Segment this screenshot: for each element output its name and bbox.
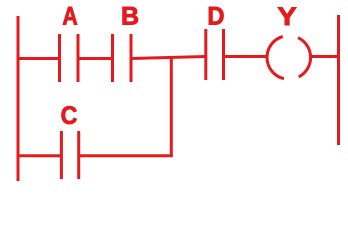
contact B right bar bbox=[130, 34, 133, 82]
contact C right bar bbox=[77, 131, 80, 179]
wire coil to right rail bbox=[310, 55, 340, 58]
left power rail bbox=[17, 16, 20, 181]
wire D to coil Y bbox=[224, 55, 268, 58]
contact C left bar bbox=[60, 131, 63, 179]
contact A right bar bbox=[77, 34, 80, 82]
wire C to riser bbox=[79, 154, 173, 157]
svg-text:D: D bbox=[207, 3, 224, 31]
wire B to D bbox=[131, 57, 206, 59]
wire rail to contact A bbox=[17, 57, 61, 60]
svg-text:B: B bbox=[121, 3, 139, 31]
branch riser wire bbox=[170, 57, 173, 157]
contact D right bar bbox=[222, 29, 225, 80]
contact D left bar bbox=[204, 29, 207, 80]
wire rail to contact C bbox=[17, 154, 63, 157]
contact B left bar bbox=[111, 34, 114, 82]
svg-text:A: A bbox=[62, 2, 78, 30]
coil Y left arc bbox=[267, 37, 284, 79]
contact A left bar bbox=[58, 34, 61, 82]
coil Y right arc bbox=[298, 38, 311, 77]
wire A to B bbox=[78, 57, 113, 60]
right power rail bbox=[337, 15, 340, 145]
svg-text:C: C bbox=[61, 102, 78, 130]
svg-text:Y: Y bbox=[277, 2, 296, 31]
